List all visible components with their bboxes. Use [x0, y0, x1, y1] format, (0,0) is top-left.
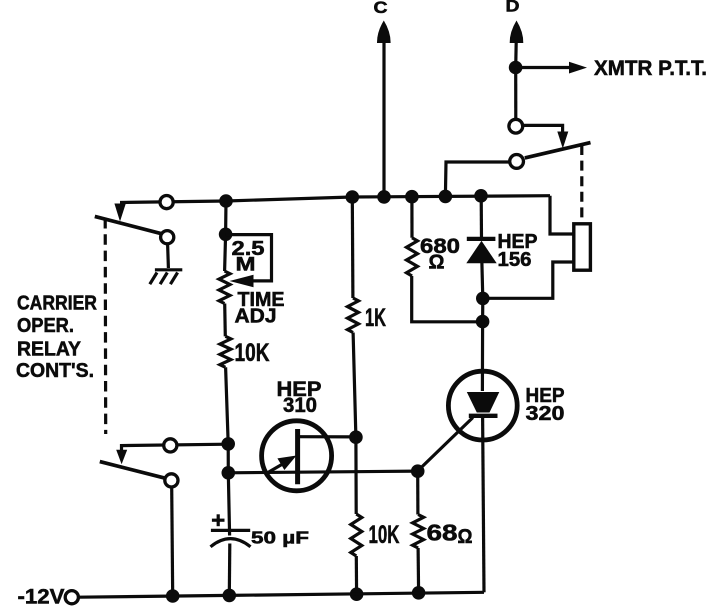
lower switch blade terminal [165, 474, 178, 487]
svg-text:D: D [506, 0, 520, 16]
svg-text:320: 320 [526, 402, 565, 425]
resistor 1K rail [351, 197, 355, 298]
junction 10K/bottom bus [350, 587, 364, 601]
resistor 680 ohm [407, 238, 418, 276]
left switch arrow [114, 204, 125, 222]
capacitor 50uF [211, 530, 251, 546]
wire to ground [166, 244, 170, 268]
label HEP 310 [277, 378, 322, 417]
wire D to junction [514, 42, 518, 68]
resistor 68 ohm [413, 515, 424, 549]
svg-text:ADJ: ADJ [235, 305, 277, 327]
potentiometer wiper loop [226, 235, 272, 281]
junction bus/left rail [219, 194, 233, 208]
resistor 10K timing [220, 336, 231, 367]
lower switch arrow [116, 450, 127, 465]
potentiometer 2.5M body [219, 271, 230, 304]
relay contact upper: blade [525, 143, 591, 158]
base rail to SCR gate line [228, 471, 417, 473]
wire 10K down left rail [226, 367, 230, 535]
junction base rail upper [221, 437, 235, 451]
wire SCR gate [418, 418, 473, 472]
label CARRIER OPER. RELAY CONT'S. [16, 293, 97, 382]
SCR HEP 320 [448, 371, 517, 440]
mechanical link dashed (right) [580, 145, 583, 221]
junction bus/1K [346, 190, 360, 204]
junction collector/1K rail [349, 430, 363, 444]
svg-text:1K: 1K [365, 304, 386, 332]
wire collector to 1K rail [298, 435, 356, 438]
wire 680 bottom loop [412, 276, 483, 322]
bottom bus [78, 592, 484, 597]
svg-text:50 µF: 50 µF [251, 528, 309, 548]
junction pot tap [219, 228, 233, 242]
wire pot to 10K [223, 304, 227, 337]
svg-text:310: 310 [283, 394, 317, 417]
net XMTR P.T.T. arrow [516, 56, 707, 80]
svg-text:M: M [236, 254, 256, 275]
svg-text:OPER.: OPER. [17, 315, 74, 337]
junction 68/bottom bus [412, 586, 426, 600]
svg-text:RELAY: RELAY [17, 338, 82, 360]
label TIME ADJ [235, 289, 285, 328]
svg-text:CONT'S.: CONT'S. [16, 360, 94, 382]
junction base rail lower [222, 466, 236, 480]
main bus [120, 196, 550, 203]
junction D / XMTR [509, 61, 523, 75]
label 68 ohm [427, 519, 473, 548]
contact arrow [557, 132, 568, 149]
ground [150, 270, 183, 284]
svg-text:CARRIER: CARRIER [17, 293, 97, 315]
left switch terminal on bus [160, 196, 173, 209]
junction cap rail/bottom bus [223, 589, 237, 603]
wire C to bus [382, 42, 385, 197]
wire fixed-contact feed with arrow [122, 444, 229, 452]
node C [374, 0, 391, 43]
wire anode rail [481, 298, 485, 391]
svg-text:156: 156 [498, 249, 532, 271]
node D [506, 0, 524, 43]
wiper arrow [230, 275, 254, 288]
junction gate/68 [411, 464, 425, 478]
capacitor 50uF plus [212, 514, 225, 526]
wire D junction down to contact [514, 68, 517, 121]
svg-text:10K: 10K [369, 521, 400, 549]
relay coil K1 [574, 224, 591, 270]
junction diode/coil loop [476, 292, 490, 306]
svg-text:68: 68 [427, 519, 458, 545]
wire bus to coil top [550, 196, 575, 234]
junction 680 loop/anode rail [476, 315, 490, 329]
wire blade terminal to bottom bus [172, 487, 173, 596]
svg-text:-12V: -12V [18, 585, 66, 609]
lower switch blade [100, 462, 171, 480]
-12V terminal [65, 591, 78, 604]
wire contact return to bus [445, 162, 510, 196]
relay contact upper: fixed terminal [509, 119, 523, 133]
diode HEP 156 [466, 196, 496, 298]
lower switch fixed terminal [164, 439, 177, 452]
svg-text:Ω: Ω [458, 526, 473, 548]
svg-text:C: C [374, 0, 388, 17]
junction bus/contact return [439, 190, 453, 204]
junction lower-switch/bottom bus [166, 589, 180, 603]
resistor 10K lower [351, 514, 362, 556]
transistor HEP 310 [262, 421, 332, 491]
left rail upper [225, 201, 226, 271]
resistor 680 ohm rail [410, 197, 413, 238]
label 2.5 M [232, 238, 265, 275]
mechanical link dashed (left) [104, 218, 108, 434]
svg-text:Ω: Ω [429, 251, 445, 273]
wire 68 to bottom bus [417, 548, 421, 593]
wire coil bottom loop [483, 262, 575, 298]
junction bus/680 [405, 190, 419, 204]
relay contact upper: pivot terminal [510, 155, 524, 169]
left switch blade terminal [161, 231, 174, 244]
svg-text:10K: 10K [235, 339, 270, 367]
label HEP 320 [526, 384, 565, 425]
wire 10K to bottom bus [355, 556, 359, 594]
label HEP 156 [498, 231, 538, 271]
junction bus/C [377, 190, 391, 204]
wire 1K to collector node to 10K [353, 333, 356, 515]
resistor 1K [348, 298, 359, 333]
wire cap to bottom bus [228, 544, 232, 597]
wire SCR cathode to bottom bus [483, 416, 484, 593]
label 680 ohm [420, 235, 460, 273]
left switch blade [95, 216, 167, 235]
junction bus/diode [474, 189, 488, 203]
resistor 68 ohm rail [416, 471, 419, 514]
wire contact arm feed [523, 125, 563, 132]
svg-text:XMTR P.T.T.: XMTR P.T.T. [594, 56, 707, 80]
